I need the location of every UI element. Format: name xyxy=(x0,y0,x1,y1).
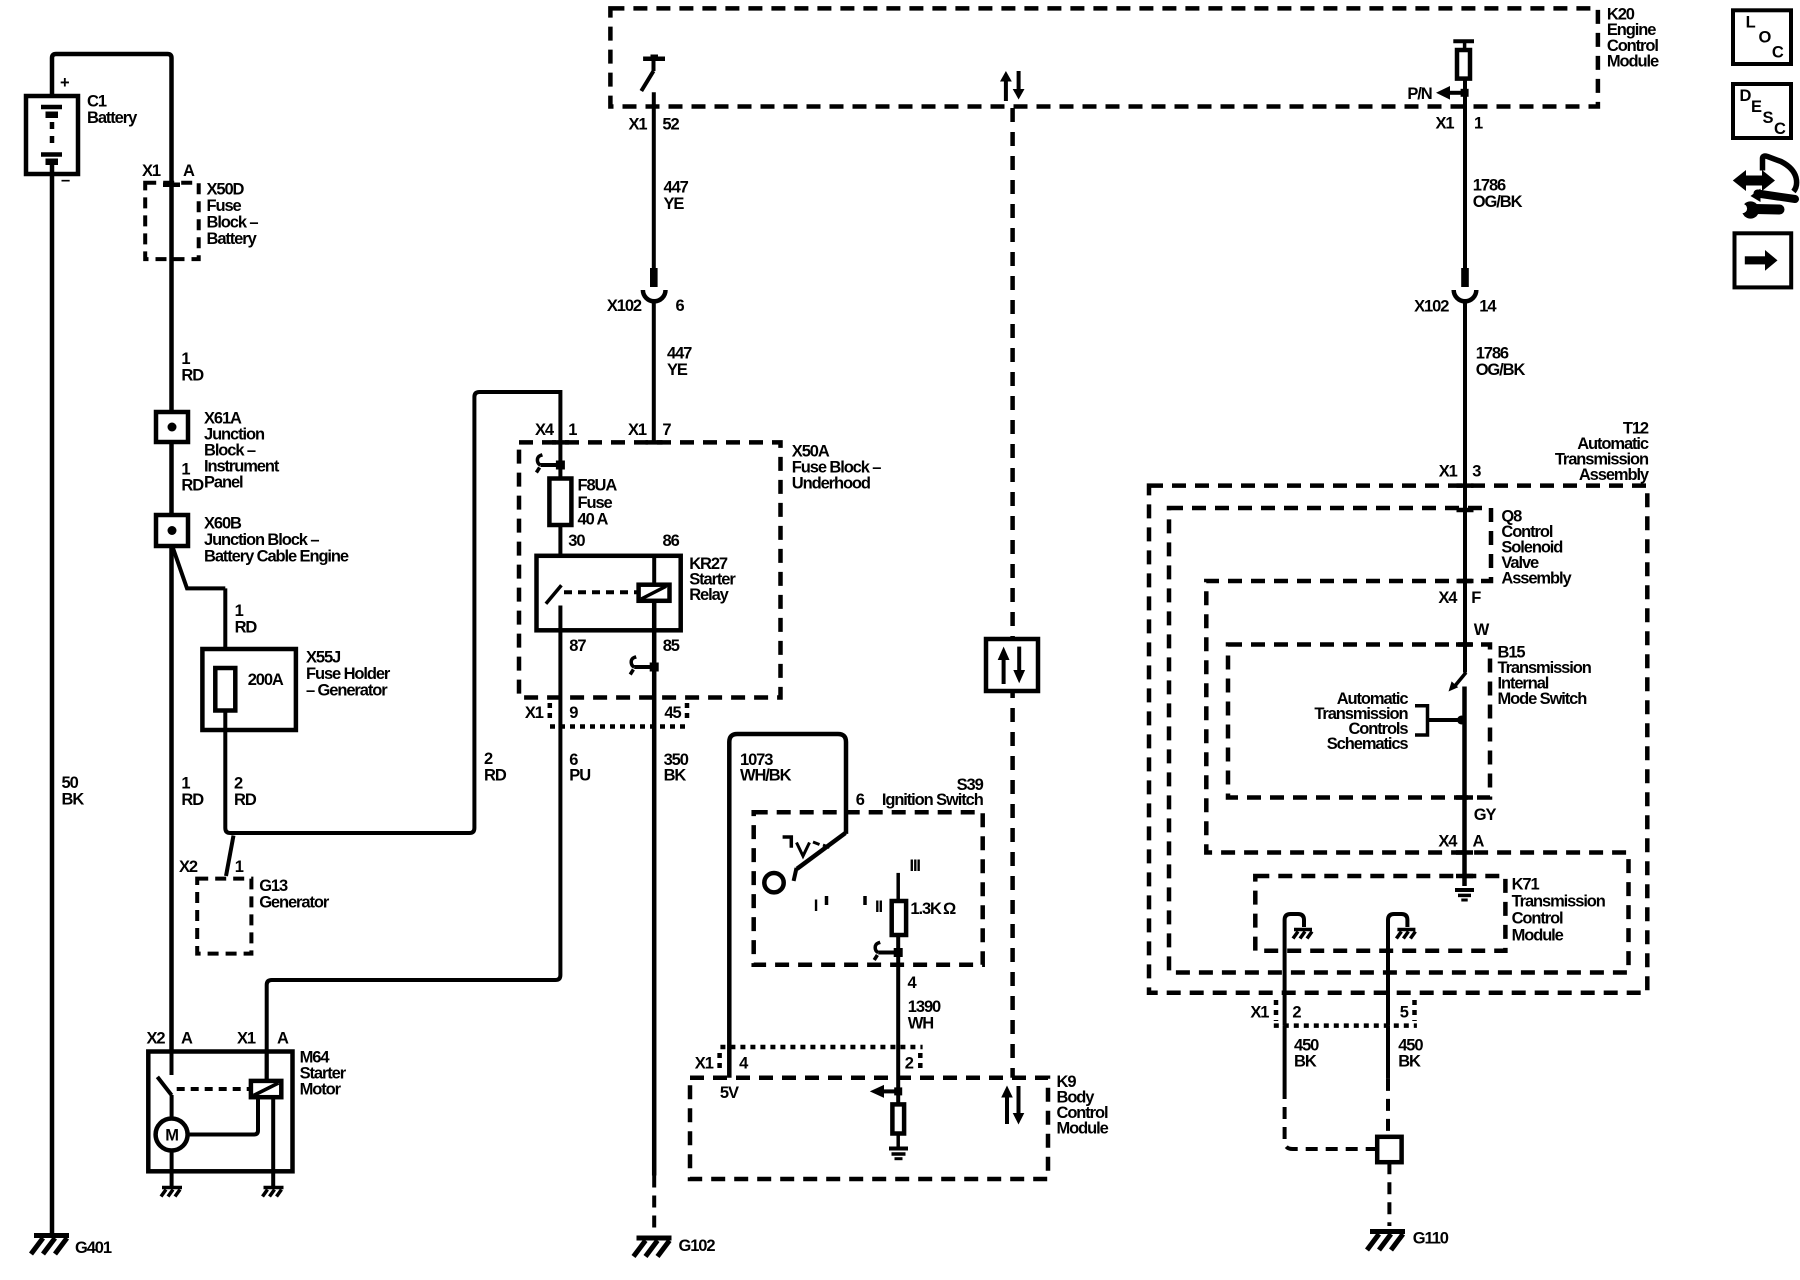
wire relay pin 86 stub xyxy=(652,556,656,585)
svg-text:RD: RD xyxy=(181,367,204,385)
svg-text:2: 2 xyxy=(484,750,493,768)
wire starter X1/A stub xyxy=(265,1052,269,1081)
svg-text:50: 50 xyxy=(62,774,79,792)
svg-text:BK: BK xyxy=(664,766,687,784)
svg-text:X1: X1 xyxy=(695,1055,714,1073)
pin tick K71 top xyxy=(1456,874,1473,879)
svg-text:G13: G13 xyxy=(259,877,288,895)
pin tick B15 top xyxy=(1456,642,1473,647)
svg-text:E: E xyxy=(1751,98,1762,116)
svg-text:Block –: Block – xyxy=(207,214,259,232)
wire 1390 WH to BCM X1/2 xyxy=(896,935,900,1104)
junction block X61A xyxy=(156,410,280,492)
svg-text:M: M xyxy=(165,1127,178,1145)
K71 ground wire pin 5 xyxy=(1388,914,1415,1026)
svg-text:A: A xyxy=(277,1030,289,1048)
relay coil xyxy=(639,585,670,601)
wire splice dashed to G110 xyxy=(1387,1162,1391,1226)
ground starter motor left xyxy=(161,1188,182,1197)
ignition position tick I xyxy=(825,896,829,905)
icon arrow box xyxy=(1735,233,1792,287)
svg-text:Generator: Generator xyxy=(259,894,330,912)
svg-text:45: 45 xyxy=(664,704,681,722)
svg-text:Battery: Battery xyxy=(207,230,258,248)
svg-text:Ω: Ω xyxy=(943,900,956,918)
wire solenoid to motor xyxy=(188,1097,258,1134)
svg-text:3: 3 xyxy=(1472,463,1481,481)
ground G102 xyxy=(634,1237,716,1257)
B15 wiper blade arrow xyxy=(1449,673,1467,692)
svg-text:C: C xyxy=(1772,44,1784,62)
serial data symbol box xyxy=(986,639,1038,691)
pin tick X1/7 xyxy=(646,440,663,445)
svg-text:X60B: X60B xyxy=(204,515,242,533)
svg-text:52: 52 xyxy=(662,116,679,134)
icon DESC box xyxy=(1733,84,1791,138)
svg-text:OG/BK: OG/BK xyxy=(1476,361,1526,379)
svg-text:9: 9 xyxy=(569,704,578,722)
BCM pull-down resistor xyxy=(892,1104,904,1133)
svg-text:5: 5 xyxy=(1400,1004,1409,1022)
svg-text:C1: C1 xyxy=(87,93,107,111)
wire 350 BK dashed to ground xyxy=(652,1176,656,1232)
svg-text:F8UA: F8UA xyxy=(578,477,618,495)
svg-text:6: 6 xyxy=(856,791,865,809)
starter solenoid coil xyxy=(251,1081,281,1097)
svg-text:30: 30 xyxy=(568,532,585,550)
pin tick Q8 top xyxy=(1457,508,1474,513)
ignition switch S39 box xyxy=(754,776,984,965)
wire battery positive feed to starter X2/A xyxy=(52,54,172,1051)
svg-text:G401: G401 xyxy=(75,1239,112,1257)
icon wrench and arrows xyxy=(1733,156,1797,219)
svg-text:Assembly: Assembly xyxy=(1579,466,1650,484)
pin tick X4/F xyxy=(1457,579,1474,584)
wire solenoid to ground xyxy=(271,1097,275,1186)
battery C1 xyxy=(26,96,78,174)
svg-text:F: F xyxy=(1471,589,1481,607)
wire branch X60B to X55J fuse holder xyxy=(173,547,226,668)
svg-text:X1: X1 xyxy=(142,162,161,180)
serial data dashed line ECM to BCM xyxy=(1010,108,1015,1078)
module K9 body control module box xyxy=(690,1073,1109,1179)
svg-text:RD: RD xyxy=(234,791,257,809)
connector strip K71 X1 2 5 xyxy=(1250,1000,1417,1026)
svg-text:O: O xyxy=(1759,29,1772,47)
relay contact blade xyxy=(546,585,562,604)
resistor 1.3K ohm xyxy=(892,900,956,935)
svg-text:1: 1 xyxy=(181,775,190,793)
svg-text:RD: RD xyxy=(181,477,204,495)
svg-text:7: 7 xyxy=(662,421,671,439)
BCM inside down arrow xyxy=(1013,1086,1025,1125)
svg-text:Battery Cable Engine: Battery Cable Engine xyxy=(204,548,349,566)
ignition key mark xyxy=(783,837,830,856)
wire 447 YE ECM X1/52 to X102 xyxy=(652,92,656,268)
B15 ground internal xyxy=(1455,890,1474,900)
pin tick X4/A xyxy=(1456,850,1473,855)
svg-text:X2: X2 xyxy=(179,858,198,876)
svg-text:WH: WH xyxy=(908,1014,933,1032)
module K20 engine control module box xyxy=(610,8,1598,106)
wire 1073 WH/BK BCM X1/4 to ignition switch xyxy=(729,734,846,1078)
svg-text:S: S xyxy=(1763,109,1774,127)
ECM internal crank relay contact xyxy=(641,55,665,92)
wire 1786 OG/BK ECM X1/1 to X102 xyxy=(1463,79,1467,268)
svg-text:1: 1 xyxy=(181,350,190,368)
relay actuation dashed link xyxy=(564,590,639,594)
svg-text:5V: 5V xyxy=(720,1084,739,1102)
svg-text:447: 447 xyxy=(664,179,689,197)
svg-text:X55J: X55J xyxy=(306,649,341,667)
svg-text:G102: G102 xyxy=(679,1237,716,1255)
svg-text:X50D: X50D xyxy=(207,181,245,199)
svg-text:2: 2 xyxy=(234,775,243,793)
BCM internal ground xyxy=(889,1149,908,1159)
svg-text:X1: X1 xyxy=(1436,115,1455,133)
starter motor M64 box xyxy=(148,1052,292,1172)
svg-text:+: + xyxy=(60,74,69,92)
svg-text:1786: 1786 xyxy=(1476,345,1509,363)
svg-text:Junction Block –: Junction Block – xyxy=(204,531,319,549)
svg-text:1390: 1390 xyxy=(908,998,941,1016)
svg-text:W: W xyxy=(1474,621,1490,639)
svg-text:RD: RD xyxy=(484,766,507,784)
svg-text:Underhood: Underhood xyxy=(792,475,870,493)
svg-text:1786: 1786 xyxy=(1473,176,1506,194)
svg-text:GY: GY xyxy=(1474,806,1497,824)
svg-text:BK: BK xyxy=(1398,1053,1421,1071)
svg-text:YE: YE xyxy=(664,195,685,213)
svg-text:Transmission: Transmission xyxy=(1512,893,1606,911)
svg-text:Motor: Motor xyxy=(300,1081,342,1099)
connector strip X1 9 45 xyxy=(525,703,688,727)
svg-text:Fuse Holder: Fuse Holder xyxy=(306,665,391,683)
svg-text:D: D xyxy=(1740,87,1752,105)
ignition switch pivot contact xyxy=(764,873,783,892)
wire 450 BK pin2 dashed to splice xyxy=(1285,1087,1375,1149)
svg-text:C: C xyxy=(1774,120,1786,138)
svg-text:87: 87 xyxy=(569,637,586,655)
svg-text:III: III xyxy=(909,857,920,875)
svg-text:Module: Module xyxy=(1057,1120,1109,1138)
svg-text:X4: X4 xyxy=(1438,832,1458,850)
svg-text:Control: Control xyxy=(1512,910,1563,928)
wire 6 PU relay pin 87 to starter X1/A xyxy=(267,606,561,1082)
splice block xyxy=(1377,1137,1401,1162)
svg-text:X102: X102 xyxy=(1414,298,1449,316)
svg-text:X4: X4 xyxy=(1438,589,1458,607)
svg-text:1: 1 xyxy=(235,858,244,876)
svg-text:86: 86 xyxy=(663,532,680,550)
svg-text:40 A: 40 A xyxy=(578,511,609,529)
svg-text:X102: X102 xyxy=(607,297,642,315)
reference Automatic Transmission Controls Schematics xyxy=(1314,690,1466,753)
ground G401 xyxy=(31,1236,112,1258)
svg-text:Module: Module xyxy=(1512,927,1564,945)
svg-text:X1: X1 xyxy=(237,1030,256,1048)
wire 450 BK pin2 solid xyxy=(1283,1026,1287,1087)
svg-text:YE: YE xyxy=(667,361,688,379)
fuse F8UA 40A xyxy=(549,477,617,529)
fuse holder X55J 200A xyxy=(202,649,391,731)
wire motor to ground xyxy=(170,1151,174,1187)
pin tick X1/3 xyxy=(1457,483,1474,488)
svg-text:Mode Switch: Mode Switch xyxy=(1498,690,1588,708)
svg-text:– Generator: – Generator xyxy=(306,682,388,700)
connector G13 generator xyxy=(179,858,330,954)
svg-text:BK: BK xyxy=(1294,1053,1317,1071)
ignition switch blade xyxy=(794,833,846,881)
svg-text:Battery: Battery xyxy=(87,109,138,127)
wire 2 RD X55J to fuse block underhood xyxy=(225,392,560,833)
svg-text:Assembly: Assembly xyxy=(1501,570,1572,588)
svg-text:1.3K: 1.3K xyxy=(910,900,942,918)
svg-text:L: L xyxy=(1746,14,1756,32)
svg-text:14: 14 xyxy=(1479,298,1497,316)
relay terminal hook pin 85 xyxy=(630,657,659,675)
svg-text:X1: X1 xyxy=(1250,1004,1269,1022)
svg-text:1: 1 xyxy=(1474,115,1483,133)
wire 350 BK relay pin 85 to G102 xyxy=(652,601,657,1176)
wire 450 BK pin5 dashed to splice xyxy=(1386,1079,1390,1137)
connector X102 pin 6 xyxy=(607,268,685,315)
svg-text:II: II xyxy=(875,898,882,916)
svg-text:RD: RD xyxy=(181,791,204,809)
connector X50D fuse block battery xyxy=(142,162,258,259)
svg-text:OG/BK: OG/BK xyxy=(1473,193,1523,211)
svg-text:Schematics: Schematics xyxy=(1327,735,1409,753)
svg-text:Fuse: Fuse xyxy=(207,197,242,215)
svg-text:K71: K71 xyxy=(1512,876,1540,894)
ignition position tick II xyxy=(863,896,867,905)
svg-text:X1: X1 xyxy=(1439,463,1458,481)
svg-text:2: 2 xyxy=(905,1055,914,1073)
junction block X60B xyxy=(156,515,349,566)
svg-text:X4: X4 xyxy=(535,421,555,439)
svg-text:–: – xyxy=(61,171,70,189)
svg-text:I: I xyxy=(814,897,818,915)
svg-text:BK: BK xyxy=(62,791,85,809)
wire stub to G13 generator xyxy=(226,836,234,877)
mode switch B15 box xyxy=(1228,644,1592,798)
fuse terminal hook F8UA xyxy=(536,455,565,473)
ECM P/N arrow xyxy=(1436,86,1469,100)
svg-text:450: 450 xyxy=(1294,1036,1319,1054)
svg-text:200A: 200A xyxy=(248,671,284,689)
wire battery negative 50 BK to G401 xyxy=(50,162,55,1233)
wire resistor top xyxy=(896,873,900,901)
svg-text:2: 2 xyxy=(1292,1004,1301,1022)
svg-text:A: A xyxy=(1473,832,1485,850)
switch terminal hook pin 4 xyxy=(874,942,903,960)
assembly T12 automatic transmission box xyxy=(1149,420,1650,993)
wire fuse to relay pin 30 xyxy=(558,525,562,586)
fuse block X50A underhood box xyxy=(519,442,881,697)
svg-text:A: A xyxy=(183,162,195,180)
svg-text:X1: X1 xyxy=(629,116,648,134)
connector strip BCM X1 4 2 xyxy=(695,1047,923,1073)
wire 1786 OG/BK X102 to T12 xyxy=(1463,302,1467,673)
assembly Q8 control solenoid valve box xyxy=(1169,508,1629,973)
svg-text:Module: Module xyxy=(1607,52,1659,70)
svg-text:X1: X1 xyxy=(525,704,544,722)
svg-text:Fuse: Fuse xyxy=(578,494,613,512)
svg-text:450: 450 xyxy=(1398,1036,1423,1054)
relay KR27 box xyxy=(537,555,737,630)
ECM edge down arrow xyxy=(1013,71,1025,100)
connector X102 pin 14 xyxy=(1414,268,1497,316)
svg-text:Panel: Panel xyxy=(204,474,243,492)
wire resistor to BCM ground xyxy=(896,1134,900,1148)
svg-text:G110: G110 xyxy=(1413,1230,1449,1248)
ground starter solenoid right xyxy=(263,1188,284,1197)
svg-text:1: 1 xyxy=(235,602,244,620)
svg-text:Ignition Switch: Ignition Switch xyxy=(882,791,984,809)
wire 447 YE X102 to fuse block xyxy=(652,302,656,443)
svg-text:RD: RD xyxy=(235,619,258,637)
svg-text:WH/BK: WH/BK xyxy=(740,766,792,784)
svg-text:1: 1 xyxy=(568,421,577,439)
K71 ground wire pin 2 xyxy=(1285,914,1312,1026)
svg-text:85: 85 xyxy=(663,637,680,655)
module K71 transmission control module box xyxy=(1255,876,1605,951)
wire B15 common to ground xyxy=(1462,687,1467,887)
svg-text:447: 447 xyxy=(667,345,692,363)
ground G110 xyxy=(1367,1230,1449,1250)
ECM crank request resistor xyxy=(1453,41,1474,78)
icon LOC box xyxy=(1733,10,1791,64)
wire 450 BK pin5 solid xyxy=(1386,1026,1390,1079)
svg-text:X2: X2 xyxy=(147,1030,166,1048)
BCM inside up arrow xyxy=(1001,1086,1013,1125)
svg-text:Relay: Relay xyxy=(689,586,729,604)
BCM signal arrow xyxy=(870,1085,902,1098)
svg-text:X1: X1 xyxy=(628,421,647,439)
starter switch contact xyxy=(157,1052,171,1119)
ECM edge up arrow xyxy=(1000,71,1012,101)
svg-text:6: 6 xyxy=(676,297,685,315)
svg-text:A: A xyxy=(181,1030,193,1048)
pin tick X4/1 xyxy=(552,440,569,445)
svg-text:PU: PU xyxy=(569,766,590,784)
starter actuation dashed link xyxy=(177,1087,251,1091)
pin tick B15 bottom xyxy=(1456,795,1473,800)
motor M xyxy=(156,1119,188,1151)
svg-text:P/N: P/N xyxy=(1407,85,1431,103)
